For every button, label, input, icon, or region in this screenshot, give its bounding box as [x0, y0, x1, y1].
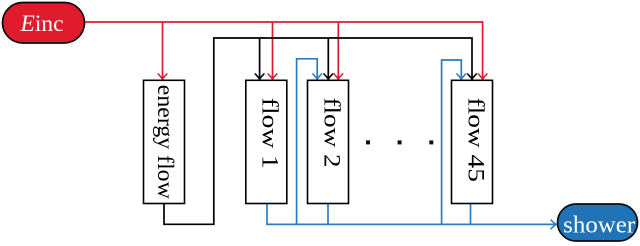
- svg-text:shower: shower: [563, 213, 635, 239]
- wire black loop from energy flow output: [164, 38, 472, 224]
- wire blue drop from flow 45 output: [470, 204, 472, 225]
- svg-text:flow 2: flow 2: [319, 98, 345, 168]
- wire black drop to flow 2: [327, 38, 329, 79]
- wire blue riser into flow 2 input: [297, 59, 318, 225]
- wire blue drop from flow 2 output: [327, 204, 329, 225]
- svg-text:flow 1: flow 1: [257, 98, 283, 169]
- svg-text:energy flow: energy flow: [152, 85, 178, 199]
- box flow 1: [246, 80, 287, 203]
- svg-text:flow 45: flow 45: [463, 97, 489, 182]
- wire red drop to flow 2: [337, 22, 339, 79]
- node shower sink stadium: [558, 204, 638, 241]
- wire black drop to flow 1: [259, 38, 261, 79]
- box flow 2: [308, 80, 349, 203]
- box energy flow: [144, 80, 185, 203]
- node Einc source stadium: [3, 3, 85, 44]
- wire red drop to flow 1: [272, 22, 274, 79]
- wire red drop to energy flow: [162, 22, 164, 79]
- wire blue riser into flow 45 input: [442, 60, 462, 224]
- wire blue bottom bus from flow 1 output to shower: [267, 204, 556, 225]
- wire red main bus from Einc: [85, 22, 483, 79]
- box flow 45: [452, 80, 493, 203]
- svg-text:Einc: Einc: [20, 11, 64, 37]
- dots ellipsis between flow 2 and flow 45: [366, 140, 370, 144]
